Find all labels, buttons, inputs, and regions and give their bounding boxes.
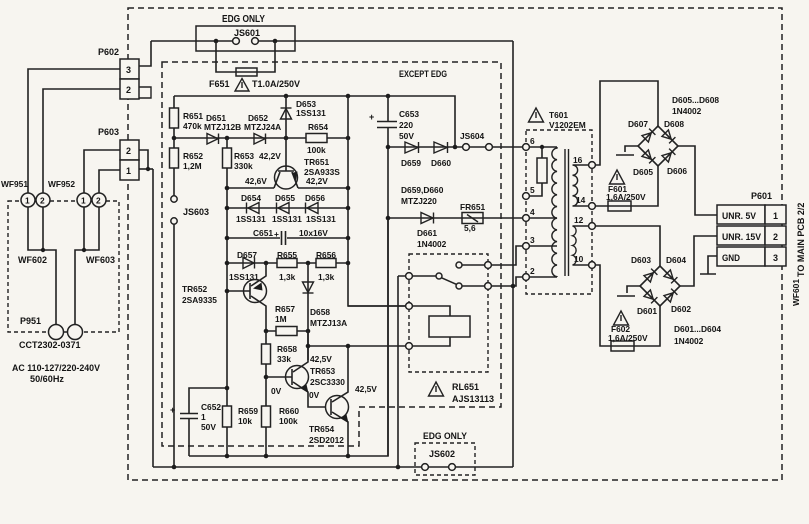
node TR652 base / left rail — [225, 289, 230, 294]
svg-text:42,2V: 42,2V — [259, 151, 281, 161]
svg-text:D659: D659 — [401, 158, 421, 168]
transformer pin 5 — [523, 193, 530, 200]
collector node line to relay coil — [308, 345, 406, 347]
resistor R657 row — [266, 330, 308, 332]
relay contact NC — [456, 283, 462, 289]
svg-text:JS602: JS602 — [429, 449, 455, 459]
svg-text:2SA9335: 2SA9335 — [182, 295, 217, 305]
svg-text:10x16V: 10x16V — [299, 228, 328, 238]
node fuse-loop right — [273, 39, 278, 44]
svg-text:WF951: WF951 — [1, 179, 28, 189]
svg-text:TR653: TR653 — [310, 366, 335, 376]
wire relay NC to transformer pin2 — [492, 277, 523, 286]
svg-text:C652: C652 — [201, 402, 221, 412]
node row138/R653 — [225, 136, 230, 141]
wire P603 pin2 left to WF952-1 — [84, 150, 120, 193]
jumper JS603 terminal 1 — [171, 196, 177, 202]
node row211 left — [225, 206, 230, 211]
svg-text:D658: D658 — [310, 307, 330, 317]
node row138/R651 — [172, 136, 177, 141]
svg-text:C653: C653 — [399, 109, 419, 119]
node 42,6V/left rail — [225, 186, 230, 191]
svg-text:2: 2 — [126, 85, 131, 95]
fuse F651 body — [236, 68, 257, 76]
svg-text:R653: R653 — [234, 151, 254, 161]
connector P601 row3 — [717, 247, 765, 266]
capacitor C652 — [180, 414, 198, 419]
svg-text:2: 2 — [530, 266, 535, 276]
WF952 terminal 2 — [92, 193, 106, 207]
wire pin2 to primary bottom — [530, 276, 558, 278]
resistor R651 — [170, 108, 179, 128]
svg-text:1SS131: 1SS131 — [229, 272, 259, 282]
svg-text:1SS131: 1SS131 — [236, 214, 266, 224]
svg-text:4: 4 — [530, 207, 535, 217]
svg-text:D605...D608: D605...D608 — [672, 95, 719, 105]
svg-text:+: + — [274, 229, 279, 239]
svg-text:P601: P601 — [751, 191, 772, 201]
svg-text:1SS131: 1SS131 — [272, 214, 302, 224]
svg-text:1: 1 — [201, 412, 206, 422]
wire pin14 through F601 to bridge1 — [596, 166, 659, 206]
svg-text:6: 6 — [530, 136, 535, 146]
fuse F602 — [611, 341, 634, 351]
relay box edge terminal top — [485, 262, 492, 269]
transistor TR653 — [266, 331, 326, 407]
D661/FR651 row to pin4 — [388, 217, 523, 219]
P951 terminal 1 — [49, 325, 64, 340]
svg-text:MTZJ220: MTZJ220 — [401, 196, 437, 206]
posistor in transformer — [537, 158, 547, 183]
svg-text:D654: D654 — [241, 193, 261, 203]
svg-text:MTZJ13A: MTZJ13A — [310, 318, 347, 328]
bottom rail 2 (EDG return) — [153, 466, 513, 468]
svg-text:R658: R658 — [277, 344, 297, 354]
relay lever pivot — [436, 273, 442, 279]
svg-text:D660: D660 — [431, 158, 451, 168]
jumper JS602 terminal 1 — [422, 464, 429, 471]
relay RL651 dashed box — [409, 254, 488, 372]
svg-text:100k: 100k — [307, 145, 326, 155]
warning triangle F602 — [614, 311, 629, 325]
diode D657 — [243, 258, 255, 269]
capacitor C653 column — [387, 96, 389, 456]
node posistor top — [540, 145, 544, 149]
top supply rail — [174, 96, 455, 147]
connector P602 pin 3 — [120, 59, 139, 79]
svg-text:R659: R659 — [238, 406, 258, 416]
capacitor C653 — [377, 122, 397, 128]
svg-text:D657: D657 — [237, 250, 257, 260]
svg-text:42,5V: 42,5V — [355, 384, 377, 394]
svg-text:470k: 470k — [183, 121, 202, 131]
resistor R658 — [262, 344, 271, 364]
jumper JS601 terminal 1 — [233, 38, 240, 45]
wire P602 pin3 left to WF951-1 — [28, 69, 120, 193]
svg-text:1: 1 — [81, 196, 86, 206]
svg-text:AC 110-127/220-240V: AC 110-127/220-240V — [12, 363, 100, 373]
node rail1/R659 — [225, 454, 230, 459]
diode D651 — [207, 134, 219, 145]
stub loop on P602 pin2 — [139, 87, 151, 98]
connector P603 pin 1 — [120, 160, 139, 180]
jumper JS604 terminal 2 — [486, 144, 493, 151]
wire JS601 line right segment to down lead — [258, 40, 513, 42]
wire P602 pin2 left to WF951-2 — [43, 89, 120, 193]
svg-text:WF603: WF603 — [86, 255, 115, 265]
svg-text:D601...D604: D601...D604 — [674, 324, 721, 334]
node TR653 base — [264, 375, 269, 380]
wire JS601 return down to bottom rail — [512, 41, 514, 467]
node WF603 — [82, 248, 86, 252]
svg-text:R657: R657 — [275, 304, 295, 314]
svg-text:2: 2 — [40, 196, 45, 206]
resistor R657 — [276, 327, 297, 336]
svg-text:AJS13113: AJS13113 — [452, 394, 494, 404]
wire P603 pin1 right stub — [139, 168, 153, 170]
svg-text:R655: R655 — [277, 250, 297, 260]
node P603 stubs join — [146, 167, 150, 171]
node row238 right — [346, 236, 351, 241]
svg-text:R652: R652 — [183, 151, 203, 161]
wire relay NO to transformer pin3 — [492, 246, 523, 265]
wire JS601 line left segment — [151, 40, 233, 42]
relay coil terminal bottom — [406, 343, 413, 350]
wire fuse loop — [216, 41, 275, 72]
WF951 terminal 1 — [21, 193, 35, 207]
svg-text:3: 3 — [126, 65, 131, 75]
connector P603 pin 2 — [120, 140, 139, 160]
svg-text:T1.0A/250V: T1.0A/250V — [252, 79, 300, 89]
node row211 right — [346, 206, 351, 211]
svg-text:1: 1 — [773, 211, 778, 221]
wire P602 pin3 to JS601 line — [139, 41, 151, 66]
transformer pin 12 — [589, 223, 596, 230]
resistor R656 — [316, 259, 336, 268]
svg-text:10k: 10k — [238, 416, 252, 426]
svg-text:42,2V: 42,2V — [306, 176, 328, 186]
svg-text:1,2M: 1,2M — [183, 161, 202, 171]
relay pole wire and lever — [398, 276, 456, 284]
svg-text:42,5V: 42,5V — [310, 354, 332, 364]
svg-text:UNR. 5V: UNR. 5V — [722, 211, 756, 221]
svg-text:R654: R654 — [308, 122, 328, 132]
wire WF602 coil leads — [28, 207, 56, 325]
svg-text:D607: D607 — [628, 119, 648, 129]
WF952 terminal 1 — [77, 193, 91, 207]
resistor R659 — [223, 406, 232, 427]
primary winding — [552, 147, 557, 277]
svg-text:2: 2 — [773, 232, 778, 242]
svg-text:1N4002: 1N4002 — [674, 336, 704, 346]
relay pole terminal — [406, 273, 413, 280]
svg-text:JS603: JS603 — [183, 207, 209, 217]
transformer pin 6 — [523, 144, 530, 151]
svg-text:1: 1 — [126, 166, 131, 176]
svg-text:50V: 50V — [399, 131, 414, 141]
svg-text:42,6V: 42,6V — [245, 176, 267, 186]
node rail2/JS603 column — [172, 465, 177, 470]
transformer pin 3 — [523, 243, 530, 250]
diode row at node A — [174, 137, 348, 139]
transistor TR654 — [326, 346, 349, 456]
bridge rectifier D605-D608 — [638, 126, 678, 166]
svg-text:330k: 330k — [234, 161, 253, 171]
svg-text:D604: D604 — [666, 255, 686, 265]
diode row D654-D656 — [227, 207, 348, 209]
relay box edge terminal bottom — [485, 283, 492, 290]
svg-text:WF952: WF952 — [48, 179, 75, 189]
outer dashed border of power PCB — [128, 8, 782, 480]
node row263 right — [346, 261, 351, 266]
svg-text:5: 5 — [530, 185, 535, 195]
diode D654 — [247, 203, 260, 214]
node row147/top-rail corner — [453, 145, 458, 150]
svg-text:12: 12 — [574, 215, 584, 225]
node coil line / D658 column — [306, 344, 311, 349]
ground at bridge2 — [617, 286, 640, 296]
svg-text:+: + — [170, 405, 175, 415]
svg-text:R651: R651 — [183, 111, 203, 121]
EXCEPT EDG dashed region boundary — [162, 62, 501, 446]
transformer pin 2 — [523, 274, 530, 281]
wire pin6 to primary top — [530, 146, 558, 148]
svg-text:MTZJ12B: MTZJ12B — [204, 122, 241, 132]
svg-text:T601: T601 — [549, 110, 568, 120]
capacitor C651 — [282, 231, 286, 245]
svg-text:1,6A/250V: 1,6A/250V — [606, 192, 646, 202]
wire pin4 tap — [530, 217, 558, 219]
svg-text:TR654: TR654 — [309, 424, 334, 434]
diode D660 — [434, 142, 448, 153]
svg-text:1,3k: 1,3k — [318, 272, 335, 282]
svg-text:50/60Hz: 50/60Hz — [30, 374, 64, 384]
capacitor C652 branch — [189, 388, 227, 456]
transformer pin 4 — [523, 215, 530, 222]
svg-text:100k: 100k — [279, 416, 298, 426]
svg-text:GND: GND — [722, 253, 740, 263]
wire P603 pin1 left to WF952-2 — [99, 170, 120, 193]
svg-text:D655: D655 — [275, 193, 295, 203]
diode D661 — [421, 213, 434, 224]
svg-text:2: 2 — [126, 146, 131, 156]
svg-text:33k: 33k — [277, 354, 291, 364]
zener D658 column — [307, 263, 309, 360]
svg-text:D661: D661 — [417, 228, 437, 238]
svg-text:EDG ONLY: EDG ONLY — [423, 431, 467, 441]
capacitor C651 row — [227, 237, 348, 239]
svg-text:1,6A/250V: 1,6A/250V — [608, 333, 648, 343]
svg-text:2: 2 — [96, 196, 101, 206]
warning triangle F651 — [235, 79, 249, 92]
jumper JS601 terminal 2 — [252, 38, 259, 45]
node coil line / TR654 collector — [346, 344, 351, 349]
svg-text:FR651: FR651 — [460, 202, 485, 212]
relay contact wires — [462, 265, 485, 286]
transformer core — [565, 149, 569, 276]
diode D652 — [254, 134, 266, 145]
wire pin3 tap — [530, 245, 558, 247]
svg-text:D608: D608 — [664, 119, 684, 129]
svg-text:D606: D606 — [667, 166, 687, 176]
transformer pin 10 — [589, 262, 596, 269]
node top rail / C653 — [386, 94, 391, 99]
resistor R654 — [306, 134, 327, 143]
svg-text:TR652: TR652 — [182, 284, 207, 294]
relay coil — [413, 306, 451, 346]
warning triangle T601 — [529, 108, 544, 122]
right rail of regulator — [348, 96, 406, 306]
svg-text:P603: P603 — [98, 127, 119, 137]
42,6V rail segment — [227, 187, 274, 189]
node row263 D658 — [306, 261, 311, 266]
wire bridge1 + output to P601 pin1 — [678, 146, 717, 215]
svg-text:MTZJ24A: MTZJ24A — [244, 122, 281, 132]
svg-text:D601: D601 — [637, 306, 657, 316]
fuse F601 — [608, 201, 631, 211]
svg-text:EDG ONLY: EDG ONLY — [222, 14, 265, 25]
transistor TR652 — [227, 263, 267, 331]
svg-text:2SD2012: 2SD2012 — [309, 435, 344, 445]
svg-text:50V: 50V — [201, 422, 216, 432]
svg-text:C651: C651 — [253, 228, 273, 238]
svg-text:WF602: WF602 — [18, 255, 47, 265]
node WF602 — [41, 248, 45, 252]
svg-text:D659,D660: D659,D660 — [401, 185, 444, 195]
svg-text:D656: D656 — [305, 193, 325, 203]
svg-text:2SC3330: 2SC3330 — [310, 377, 345, 387]
svg-text:1N4002: 1N4002 — [417, 239, 447, 249]
relay coil terminal top — [406, 303, 413, 310]
ground at bridge1 — [616, 146, 638, 155]
node top rail / right rail — [346, 94, 351, 99]
svg-text:V1202EM: V1202EM — [549, 120, 586, 130]
connector P601 row2 — [717, 226, 765, 245]
ground rail 1 (emitter rail) — [189, 218, 388, 456]
node row263 left — [225, 261, 230, 266]
node rail1/TR654 emitter — [346, 454, 351, 459]
svg-text:WF601: WF601 — [791, 279, 801, 306]
wire WF603 coil leads — [75, 207, 99, 325]
node rail2/relay pole line — [396, 465, 401, 470]
42,2V rail segment — [298, 187, 348, 189]
connector P601 row1 — [717, 205, 765, 224]
diode D659 — [405, 142, 419, 153]
node fuse-loop left — [214, 39, 219, 44]
svg-text:3: 3 — [773, 253, 778, 263]
ground at P601 GND — [700, 256, 717, 274]
node row138/D653+TR651 base — [284, 136, 289, 141]
diode D655 — [277, 203, 290, 214]
diode D656 — [306, 203, 319, 214]
transformer T601 dashed box — [526, 130, 592, 294]
resistor R653 — [223, 148, 232, 168]
resistor R655 — [277, 259, 297, 268]
svg-text:P602: P602 — [98, 47, 119, 57]
svg-text:TO MAIN PCB 2/2: TO MAIN PCB 2/2 — [796, 203, 806, 277]
svg-text:220: 220 — [399, 120, 413, 130]
resistor R660 — [262, 406, 271, 427]
svg-text:D602: D602 — [671, 304, 691, 314]
wire pin16 up to bridge1 AC — [596, 81, 659, 165]
left rail of regulator (R653 column) — [226, 138, 228, 456]
svg-text:16: 16 — [573, 155, 583, 165]
jumper JS602 terminal 2 — [449, 464, 456, 471]
resistor column R651/R652 with JS603 — [173, 96, 175, 467]
jumper JS604 terminal 1 — [463, 144, 470, 151]
warning triangle RL651 — [429, 382, 444, 396]
secondary winding lower — [573, 226, 589, 265]
node rail1/R660 — [264, 454, 269, 459]
svg-text:R656: R656 — [316, 250, 336, 260]
svg-text:UNR. 15V: UNR. 15V — [722, 232, 761, 242]
fuse resistor FR651 — [462, 213, 483, 224]
bridge rectifier D601-D604 — [640, 266, 680, 306]
node row218/C653 column — [386, 216, 391, 221]
jumper JS603 terminal 2 — [171, 218, 177, 224]
svg-text:+: + — [369, 112, 374, 122]
row D657 R655 R656 — [227, 262, 348, 264]
svg-text:RL651: RL651 — [452, 382, 479, 392]
node row263 TR652 collector — [264, 261, 269, 266]
connector P602 pin 2 — [120, 79, 139, 99]
wire pin10 down through F602 to bridge2 — [596, 265, 661, 346]
svg-text:0V: 0V — [271, 386, 282, 396]
svg-text:F651: F651 — [209, 79, 230, 89]
secondary winding upper — [573, 165, 589, 206]
wire pin12 to bridge2 AC top — [596, 226, 661, 266]
svg-text:R660: R660 — [279, 406, 299, 416]
degauss coil dashed box — [8, 201, 119, 332]
node pin2 wire / JS601 return — [511, 284, 516, 289]
transformer pin 16 — [589, 162, 596, 169]
warning triangle F601 — [610, 170, 625, 184]
svg-text:P951: P951 — [20, 316, 41, 326]
svg-text:1N4002: 1N4002 — [672, 106, 702, 116]
wire coil top feed from right rail — [348, 305, 406, 307]
transistor TR651 — [274, 138, 298, 189]
svg-text:1,3k: 1,3k — [279, 272, 296, 282]
wire bridge2 + output to P601 pin2 — [680, 236, 717, 286]
relay contact NO — [456, 262, 462, 268]
R658 column — [265, 331, 267, 456]
svg-text:1M: 1M — [275, 314, 287, 324]
svg-text:1SS131: 1SS131 — [296, 108, 326, 118]
node row238 left — [225, 236, 230, 241]
node 42,2V/right rail — [346, 186, 351, 191]
JS601 enclosure box — [196, 26, 295, 51]
node C652/left rail — [225, 386, 230, 391]
zener D658 — [303, 282, 314, 293]
svg-text:CCT2302-0371: CCT2302-0371 — [19, 340, 81, 350]
svg-text:0V: 0V — [309, 390, 320, 400]
rectified AC row to pin6 — [388, 146, 523, 148]
zener D653 — [285, 96, 287, 138]
wire P603 pin2 right stub — [139, 150, 148, 169]
svg-text:TR651: TR651 — [304, 157, 329, 167]
resistor R652 — [170, 148, 179, 168]
P951 terminal 2 — [68, 325, 83, 340]
node R657/R658/TR652 emitter — [264, 329, 269, 334]
svg-text:1SS131: 1SS131 — [306, 214, 336, 224]
svg-text:JS604: JS604 — [460, 131, 485, 141]
node top rail / D653 — [284, 94, 289, 99]
svg-text:1: 1 — [25, 196, 30, 206]
svg-text:3: 3 — [530, 235, 535, 245]
transformer pin 14 — [589, 203, 596, 210]
wire relay pole down to rail2 — [397, 276, 399, 467]
node row147/C653 column — [386, 145, 391, 150]
